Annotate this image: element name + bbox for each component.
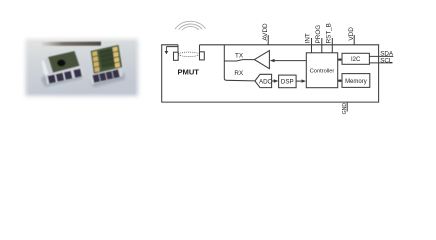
SCL wire bbox=[369, 62, 392, 64]
arrowheads bbox=[165, 51, 343, 83]
GND pin bbox=[346, 102, 348, 111]
dark streak behind chips bbox=[42, 42, 101, 46]
SDA wire bbox=[369, 55, 393, 57]
right chip gold pads left column bbox=[92, 51, 100, 72]
arc inner bbox=[182, 26, 198, 29]
DSP to controller wire bbox=[296, 80, 303, 82]
PROG pin bbox=[321, 38, 323, 53]
pmut drop right bbox=[199, 45, 201, 52]
ctrl-mem link bbox=[338, 80, 342, 82]
right chip band pads bbox=[92, 69, 119, 83]
left chip port hole bbox=[57, 60, 65, 67]
photo background bbox=[26, 39, 139, 96]
pmut anchor left bbox=[174, 52, 179, 60]
right chip top face bbox=[91, 45, 122, 74]
pmut arrow tee wire bbox=[166, 46, 178, 48]
right chip shadow bbox=[90, 73, 125, 88]
RX wire bbox=[226, 79, 255, 82]
right chip band bbox=[89, 67, 123, 85]
ctrl-i2c arrowheads bbox=[339, 58, 343, 61]
arrow into TX amp bbox=[270, 59, 275, 62]
memory box bbox=[342, 74, 370, 88]
left chip white backing bbox=[42, 59, 53, 83]
svg-text:DSP: DSP bbox=[281, 79, 294, 86]
left chip band bbox=[45, 67, 83, 85]
svg-text:RX: RX bbox=[234, 70, 244, 77]
svg-text:I2C: I2C bbox=[351, 57, 361, 63]
AVDD pin bbox=[267, 35, 269, 45]
arc middle bbox=[179, 24, 202, 29]
arrow into DSP bbox=[274, 79, 279, 82]
ADC block bbox=[255, 74, 272, 87]
RST_B pin bbox=[331, 38, 333, 53]
arrow into controller from DSP bbox=[302, 79, 307, 82]
TX junction vertical wire bbox=[224, 45, 226, 81]
svg-text:VDD: VDD bbox=[348, 27, 355, 41]
ctrl-mem arrowheads bbox=[339, 79, 343, 82]
svg-text:AVDD: AVDD bbox=[262, 23, 269, 41]
center striations bbox=[99, 49, 113, 68]
arc outer bbox=[175, 21, 205, 28]
TX wire bbox=[224, 60, 254, 61]
I2C box bbox=[342, 53, 369, 64]
pmut anchor right bbox=[200, 52, 205, 60]
left chip band pads bbox=[48, 69, 82, 84]
left chip left face bbox=[44, 57, 53, 75]
VDD pin bbox=[353, 35, 355, 45]
texts bbox=[177, 23, 394, 114]
right chip gold pads right column bbox=[112, 47, 120, 68]
svg-text:SDA: SDA bbox=[380, 50, 394, 57]
svg-text:Memory: Memory bbox=[345, 79, 367, 85]
ctrl-i2c link bbox=[338, 59, 342, 61]
svg-text:RST_B: RST_B bbox=[325, 23, 332, 43]
pmut arrow shaft bbox=[165, 47, 167, 52]
pmut membrane bbox=[178, 52, 199, 56]
svg-text:PMUT: PMUT bbox=[177, 67, 199, 76]
wireless arcs bbox=[175, 21, 205, 30]
svg-text:TX: TX bbox=[235, 53, 244, 60]
TX input wire bbox=[274, 60, 306, 62]
pmut drop left bbox=[177, 45, 179, 52]
DSP box bbox=[279, 75, 297, 88]
controller box bbox=[306, 53, 337, 88]
left chip shadow bbox=[41, 72, 82, 87]
svg-text:SCL: SCL bbox=[380, 57, 393, 64]
right chip center field bbox=[99, 50, 116, 69]
svg-text:ADC: ADC bbox=[259, 78, 273, 85]
svg-text:Controller: Controller bbox=[310, 68, 335, 74]
TX amp triangle bbox=[254, 51, 269, 69]
INT pin bbox=[311, 38, 313, 53]
svg-text:INT: INT bbox=[305, 33, 312, 43]
svg-text:PROG: PROG bbox=[315, 25, 322, 44]
left chip top face bbox=[48, 51, 80, 73]
ADC to DSP wire bbox=[272, 80, 276, 82]
pmut down arrow head bbox=[165, 51, 169, 54]
svg-text:GND: GND bbox=[342, 103, 348, 115]
outer box bbox=[162, 45, 379, 102]
